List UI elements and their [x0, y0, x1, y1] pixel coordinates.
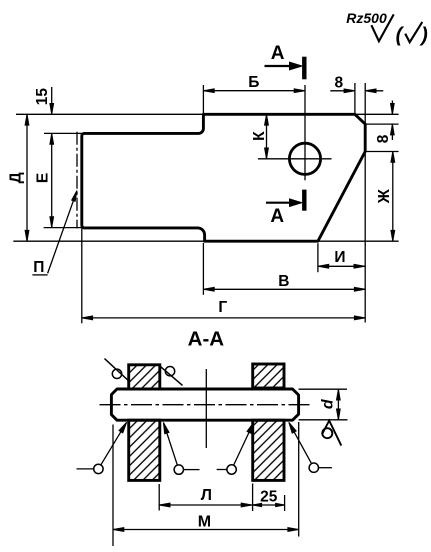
- dimension d arrow top: [337, 389, 341, 400]
- section mark top arrowhead: [290, 62, 303, 70]
- label Rz500: [346, 10, 387, 26]
- svg-text:Д: Д: [8, 172, 25, 183]
- dimension 8right arrow up: [391, 124, 395, 135]
- label Е: [34, 173, 51, 183]
- top extension line right: [355, 113, 399, 115]
- dimension И arrow right: [354, 264, 365, 268]
- dimension 25 arrow right: [276, 503, 285, 506]
- label 8 top: [334, 74, 343, 91]
- svg-text:А-А: А-А: [188, 327, 225, 350]
- weld leader 1: [77, 422, 127, 473]
- dimension 8top ext right: [364, 83, 366, 124]
- dimension 8right line lower: [391, 124, 393, 140]
- dimension Ж arrow bottom: [391, 230, 395, 241]
- dimension 25 ext right: [284, 495, 286, 511]
- dimension В ext left: [202, 243, 204, 295]
- hole: [289, 143, 320, 174]
- svg-text:А: А: [270, 206, 284, 227]
- tab top extension line: [44, 132, 82, 134]
- right extension line: [364, 152, 366, 323]
- top extension line left: [16, 113, 203, 115]
- upper right plate: [253, 364, 284, 388]
- label Л: [201, 487, 212, 504]
- dimension 8right line upper: [391, 101, 393, 115]
- dimension М ext left: [112, 425, 114, 547]
- dimension И line: [318, 265, 365, 267]
- dimension Г ext left: [81, 229, 83, 324]
- label П: [33, 259, 44, 276]
- weld leader 4: [289, 422, 332, 472]
- dimension 8top arrow left: [344, 89, 355, 93]
- label А-А: [188, 327, 225, 350]
- svg-text:8: 8: [375, 134, 392, 143]
- dimension Б arrow left: [203, 89, 214, 93]
- dimension 8right ext: [365, 123, 398, 125]
- svg-text:Л: Л: [201, 487, 212, 504]
- dimension Л arrow right: [241, 503, 252, 507]
- label Ж: [376, 188, 393, 204]
- dimension 8top arrow right: [365, 89, 376, 93]
- svg-text:И: И: [334, 249, 345, 266]
- dimension 15 upper line: [51, 87, 53, 114]
- leader П arrow: [72, 191, 77, 202]
- lower left plate: [129, 420, 160, 480]
- dimension Ж line: [392, 152, 394, 242]
- part outline: [82, 114, 365, 241]
- weld mark top-right line: [158, 365, 182, 386]
- dimension В arrow right: [354, 287, 365, 291]
- label Б: [248, 74, 259, 91]
- surface mark check: [322, 421, 341, 446]
- svg-text:Ж: Ж: [376, 188, 393, 204]
- dimension d ext bottom: [299, 419, 348, 421]
- dimension 8top line right: [365, 90, 383, 92]
- dimension 8top line left: [330, 90, 355, 92]
- svg-text:К: К: [251, 131, 268, 141]
- section mark bottom arrow line: [266, 202, 297, 204]
- label Д: [8, 172, 25, 183]
- upper left plate: [129, 365, 160, 389]
- dimension М ext right: [298, 422, 300, 537]
- label И: [334, 249, 345, 266]
- svg-text:М: М: [198, 513, 211, 530]
- dimension Ж ext top: [365, 151, 398, 153]
- svg-text:П: П: [33, 259, 44, 276]
- leader П line: [48, 193, 77, 274]
- weld mark top-left circle: [112, 369, 121, 378]
- svg-text:25: 25: [260, 488, 278, 505]
- bar centerline: [100, 404, 310, 406]
- bottom extension line left: [13, 240, 204, 242]
- label close paren: [419, 25, 428, 47]
- dimension 8top ext left: [354, 83, 356, 114]
- label 15: [34, 88, 51, 106]
- weld mark top-right circle: [165, 367, 174, 376]
- section symmetry axis: [205, 369, 207, 448]
- dimension М line: [113, 529, 299, 531]
- dimension Л arrow left: [159, 503, 170, 507]
- dimension И arrow left: [318, 264, 329, 268]
- section mark bottom bar: [302, 190, 306, 211]
- roughness symbol small: [405, 22, 422, 42]
- label 25: [260, 488, 278, 505]
- dimension Г line: [82, 317, 365, 319]
- dimension Б line: [203, 90, 305, 92]
- svg-text:Г: Г: [218, 299, 227, 316]
- label d: [320, 398, 337, 409]
- dimension Л ext left: [158, 484, 160, 511]
- svg-text:Rz500: Rz500: [346, 10, 387, 26]
- dimension 25 arrow left: [253, 503, 262, 506]
- dimension 15 arrow down: [50, 104, 54, 115]
- label A bottom: [270, 206, 284, 227]
- section mark top arrow line: [265, 65, 297, 67]
- dimension 25 line: [253, 504, 285, 506]
- label М: [198, 513, 211, 530]
- dimension И ext left: [317, 243, 319, 272]
- dimension Б ext left: [202, 85, 204, 114]
- dimension Д line: [26, 114, 28, 241]
- hole horizontal centerline: [258, 158, 332, 160]
- dimension К arrow top: [265, 114, 269, 125]
- dimension Л line: [159, 504, 252, 506]
- dimension В line: [203, 288, 365, 290]
- svg-text:d: d: [320, 398, 337, 409]
- label A top: [271, 43, 285, 64]
- dimension Д arrow bottom: [25, 230, 29, 241]
- dimension М arrow right: [288, 528, 299, 532]
- svg-text:А: А: [271, 43, 285, 64]
- svg-text:15: 15: [34, 88, 51, 106]
- dimension d ext top: [299, 388, 347, 390]
- dimension d arrow bottom: [337, 409, 341, 420]
- dimension Г arrow right: [354, 316, 365, 320]
- roughness symbol main: [371, 14, 393, 41]
- svg-text:8: 8: [334, 74, 343, 91]
- svg-text:): ): [419, 25, 428, 47]
- dimension Е arrow top: [50, 133, 54, 144]
- section mark bottom arrowhead: [290, 199, 303, 207]
- surface mark circle: [322, 428, 332, 438]
- weld leader 3: [217, 422, 254, 474]
- svg-text:Е: Е: [34, 173, 51, 183]
- dimension Г arrow left: [82, 316, 93, 320]
- tab bottom extension line: [44, 227, 82, 229]
- svg-text:В: В: [278, 273, 289, 290]
- lower right plate: [253, 420, 284, 480]
- bottom extension line right: [318, 240, 399, 242]
- section mark top bar: [302, 57, 306, 80]
- hole vertical centerline / ext of Б: [304, 85, 306, 180]
- dimension Д arrow top: [25, 114, 29, 125]
- dimension d line: [337, 389, 339, 420]
- bar outline: [111, 389, 298, 420]
- weld mark top-left line: [105, 359, 129, 381]
- dimension К line: [266, 114, 268, 159]
- dimension К arrow bottom: [265, 148, 269, 159]
- label 8 right: [375, 134, 392, 143]
- label Г: [218, 299, 227, 316]
- label open paren: [396, 25, 405, 47]
- label К: [251, 131, 268, 141]
- dimension 25 ext left: [252, 484, 254, 512]
- label В: [278, 273, 289, 290]
- dimension 8right arrow down: [391, 104, 395, 115]
- label П underline: [32, 274, 47, 276]
- weld leader 2: [163, 423, 199, 475]
- dimension М arrow left: [113, 528, 124, 532]
- dimension Ж arrow top: [391, 152, 395, 163]
- dash-dot line П: [76, 132, 78, 229]
- svg-text:Б: Б: [248, 74, 259, 91]
- dimension Е line: [51, 133, 53, 227]
- dimension В arrow left: [203, 287, 214, 291]
- dimension Б arrow right: [294, 89, 305, 93]
- dimension Е arrow bottom: [50, 217, 54, 228]
